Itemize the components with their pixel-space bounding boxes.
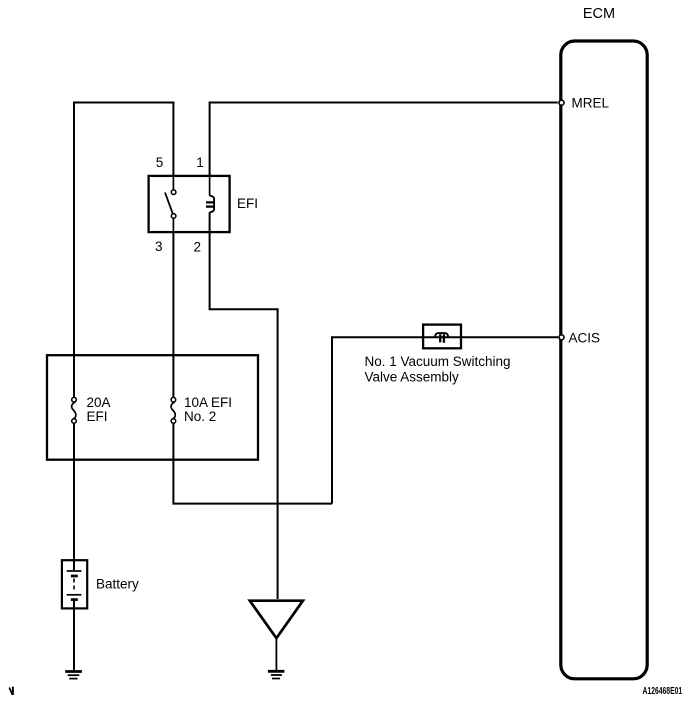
svg-text:A126468E01: A126468E01 bbox=[643, 684, 683, 696]
valve box VSV bbox=[423, 325, 461, 349]
svg-text:10A EFI: 10A EFI bbox=[184, 395, 232, 410]
relay EFI box bbox=[149, 176, 230, 232]
triangle ground shield bbox=[250, 601, 303, 639]
battery BT1 plate long bottom bbox=[67, 594, 82, 596]
fuse F2 10A: element squiggle bbox=[171, 402, 175, 418]
svg-text:EFI: EFI bbox=[237, 196, 258, 211]
svg-text:3: 3 bbox=[155, 239, 163, 254]
pin ACIS circle bbox=[559, 335, 564, 340]
wire W2: battery branch top to relay pin 5 bbox=[74, 103, 173, 398]
battery BT1 dashed link bbox=[73, 579, 75, 593]
wire W4: relay pin 3 through 10A fuse to valve branch corner bbox=[173, 232, 332, 504]
relay switch: top contact circle bbox=[171, 190, 176, 195]
battery BT1 plate short bottom bbox=[71, 598, 78, 601]
svg-text:ACIS: ACIS bbox=[569, 330, 601, 345]
ground G2 under triangle bbox=[268, 671, 285, 678]
fuse F2 10A: top circle bbox=[171, 397, 176, 402]
fuse F1 20A: element squiggle bbox=[72, 402, 76, 418]
fuse F1 20A: top circle bbox=[72, 397, 77, 402]
wire W8: triangle apex to ground bbox=[275, 638, 277, 670]
relay switch: pin3 stub wire bbox=[172, 218, 174, 232]
wire W1: MREL to relay pin 1 bbox=[210, 103, 558, 177]
ground G1 under battery bbox=[65, 672, 82, 679]
wire W3: relay pin 2 to triangle ground bbox=[210, 212, 278, 599]
pin MREL circle bbox=[559, 100, 564, 105]
svg-text:Battery: Battery bbox=[96, 577, 139, 592]
wire W7: battery to ground bbox=[73, 601, 75, 671]
svg-text:No. 1 Vacuum Switching: No. 1 Vacuum Switching bbox=[365, 354, 511, 369]
battery BT1 box bbox=[62, 560, 87, 608]
valve coil L2 bar1 bbox=[439, 334, 441, 342]
valve coil L2 loop bbox=[435, 333, 448, 337]
svg-text:EFI: EFI bbox=[87, 409, 108, 424]
svg-text:ECM: ECM bbox=[583, 6, 615, 22]
fuse F2 10A: bottom circle bbox=[171, 419, 176, 424]
svg-text:MREL: MREL bbox=[572, 96, 610, 111]
relay coil L1 stub bbox=[209, 176, 211, 196]
stray mark bottom-left vertical bbox=[12, 687, 14, 695]
valve coil L2 bar2 bbox=[443, 334, 445, 343]
svg-text:5: 5 bbox=[156, 155, 164, 170]
battery BT1 plate long top bbox=[67, 570, 82, 572]
wire W6: fuse box to battery bbox=[73, 424, 75, 570]
fuse F1 20A: bottom circle bbox=[72, 419, 77, 424]
fuse box body bbox=[47, 355, 258, 460]
svg-text:1: 1 bbox=[196, 155, 204, 170]
svg-text:2: 2 bbox=[194, 240, 202, 255]
battery BT1 plate short top bbox=[71, 575, 78, 578]
relay coil L1 loop bbox=[210, 196, 215, 213]
stray mark bottom-left diagonal bbox=[9, 688, 12, 695]
relay coil L1 bar2 bbox=[206, 205, 214, 207]
svg-text:No. 2: No. 2 bbox=[184, 409, 216, 424]
svg-text:20A: 20A bbox=[87, 395, 111, 410]
relay coil L1 bar1 bbox=[206, 201, 214, 203]
svg-text:Valve Assembly: Valve Assembly bbox=[365, 370, 460, 385]
wire W5: valve branch vertical and horizontal to ACIS bbox=[332, 337, 558, 503]
relay switch: pin5 stub wire bbox=[172, 176, 174, 190]
relay switch: bottom contact circle bbox=[171, 214, 176, 219]
relay switch: blade bbox=[165, 193, 173, 214]
ECM U1 body bbox=[561, 41, 647, 679]
